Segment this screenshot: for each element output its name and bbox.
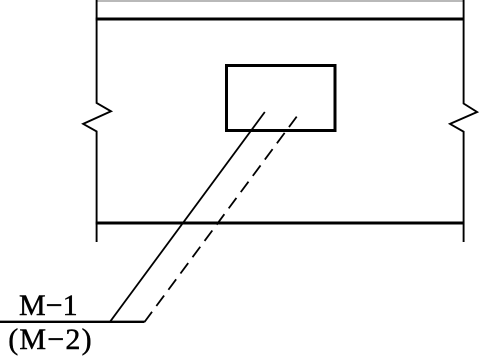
svg-text:M−1: M−1 bbox=[19, 289, 78, 322]
wall top thick line bbox=[96, 18, 465, 21]
right vertical wall edge with break symbol bbox=[450, 0, 477, 242]
left vertical wall edge with break symbol bbox=[83, 0, 111, 242]
leader horizontal line bbox=[0, 321, 145, 323]
wall top faint edge line bbox=[96, 0, 464, 2]
wall bottom thick line bbox=[96, 222, 465, 225]
dashed leader diagonal to (M-2) bbox=[145, 117, 297, 322]
opening rectangle M-1 bbox=[227, 66, 336, 131]
solid leader diagonal to M-1 bbox=[110, 112, 265, 322]
svg-text:(M−2): (M−2) bbox=[8, 323, 93, 356]
